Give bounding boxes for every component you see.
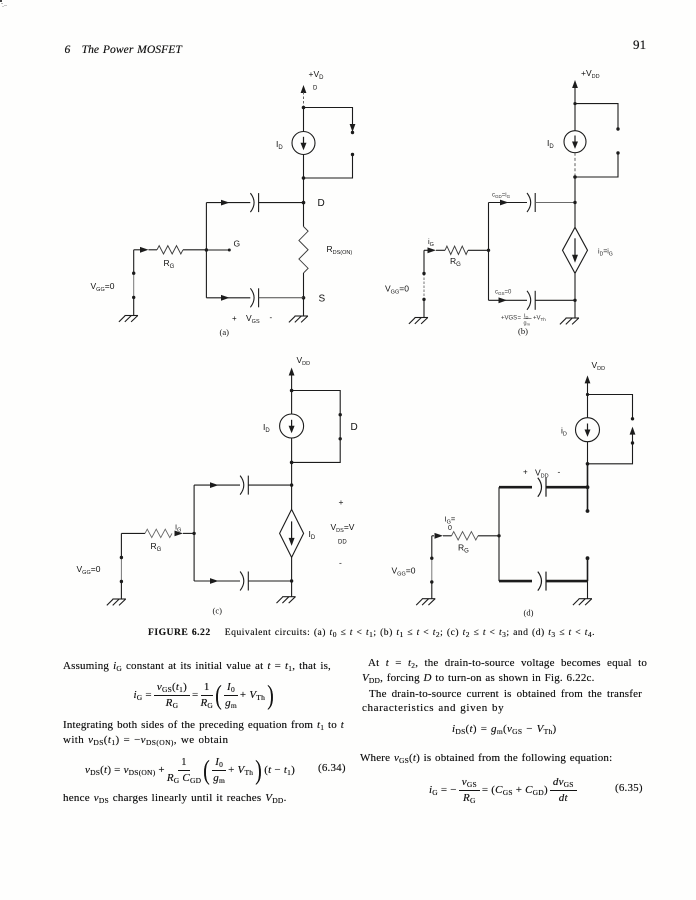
label VDS=V (c) [331,522,355,534]
label +VD supply (a) [309,69,325,81]
wire current source to bottom node (b) [574,153,576,177]
node top (c) [290,389,294,393]
label VDD supply (d) [592,360,606,372]
label iG=0 (d) [445,515,456,533]
current arrow into CGD (a) [221,200,230,206]
svg-text:ID: ID [263,422,270,434]
ground VGG (c) [107,599,126,605]
svg-text:D: D [318,198,325,209]
capacitor CGD (a) [250,193,258,212]
label VGG=0 (b) [385,284,409,296]
resistor RDS(ON) (a) [299,227,308,273]
ground under S (a) [289,316,308,322]
label minus VDS (c) [339,558,342,568]
resistor RG (c) [145,529,172,537]
supply arrow up (c) [289,368,295,391]
label S (a) [319,294,326,305]
label VGG=0 (a) [91,281,115,293]
wire dependent source to source node (c) [291,557,293,581]
svg-text:G: G [234,239,241,249]
svg-text:cGS=0: cGS=0 [495,290,512,297]
svg-text:VGG=0: VGG=0 [385,284,409,296]
node bottom of loop (c) [290,461,294,465]
switch contact lower (b) [575,151,620,177]
thick wire gate to capacitor CGS (d) [499,580,532,583]
supply arrow up (a) [301,85,307,108]
label iD (d) [561,426,567,438]
svg-text:ID: ID [276,139,283,151]
wire VGG to RG (a) [134,249,140,251]
supply arrow up (b) [572,80,578,104]
wire current source to bottom node (d) [587,442,589,464]
svg-text:+: + [339,497,344,507]
equation 6.35 [428,776,578,804]
svg-text:ID: ID [309,529,316,541]
figure caption [148,627,595,638]
equation iDS(t) [452,723,557,735]
capacitor CGS (b) [527,291,535,310]
wire RDS to S (a) [303,273,305,298]
wire dependent source to source node (b) [574,274,576,301]
wire loop to CGD node (c) [291,462,293,485]
label plus VDS (c) [339,497,344,507]
gate junction (d) [497,534,500,537]
open switch arrow down (a) [350,124,356,134]
wire top-right branch (a) [304,108,353,125]
wire CGS to source node (c) [248,580,291,582]
dependent source diamond (b) [563,227,588,273]
current source ID (a) [292,132,315,155]
wire top-right branch (c) [292,391,341,415]
svg-text:iD: iD [561,426,567,438]
wire gate to capacitor CGS (c) [194,580,240,582]
supply arrow up (d) [585,375,591,394]
svg-text:cGD=iG: cGD=iG [492,193,511,200]
thick wire CGD to drain node (d) [546,486,588,489]
diode contact upper (d) [631,417,634,420]
gate terminal stub G (a) [206,249,230,252]
svg-text:S: S [319,294,326,305]
node D (a) [302,201,306,205]
label (a) [220,327,230,337]
svg-text:-: - [270,313,273,322]
wire loop to drain node thick (d) [587,464,589,487]
node CGS-source (b) [573,299,576,302]
wire top-right branch (b) [575,104,618,129]
ground VGG (b) [409,318,428,324]
wire gate to capacitor CGD (a) [206,202,250,204]
ground right (d) [573,599,592,605]
wire VGG to RG (b) [424,249,428,251]
label (b) [518,326,528,336]
running head chapter title [65,43,182,56]
svg-text:RG: RG [164,258,175,270]
junction dots VGG wire (c) [120,556,123,583]
capacitor CGS (c) [240,572,248,591]
label IG (c) [175,523,181,534]
resistor RG (d) [452,532,500,540]
label cgs tiny (b) [495,290,512,297]
page number 91 [633,37,646,53]
svg-text:+: + [523,468,528,477]
label RG (b) [450,256,461,268]
node CGS-source (c) [290,579,293,582]
gate vertical wire (c) [193,485,195,581]
current arrow into CGS (c) [210,578,219,584]
wire source node to ground (c) [291,581,293,597]
svg-text:RG: RG [151,541,162,553]
svg-text:IG=: IG= [445,515,456,526]
svg-text:(b): (b) [518,326,528,336]
current arrow IG (c) [175,531,195,537]
capacitor CGD (c) [240,476,248,495]
label VDD supply (c) [297,355,311,367]
current arrow into CGS (a) [221,295,230,301]
label ID (a) [276,139,283,151]
label (d) [524,608,534,618]
wire CGS to source node (b) [535,299,575,301]
label ID (b) [547,138,554,150]
label D subscript second line (a) [313,86,318,92]
current arrow iG (d) [435,533,452,539]
VGG vertical wire (b) [423,250,425,317]
node top (d) [586,393,589,396]
VGG vertical wire (d) [431,536,433,599]
capacitor CGD (d) [538,478,546,497]
VGG source vertical wire (a) [133,250,135,316]
label D (c) [351,422,358,433]
equation iG = vGS(t1)/RG [133,681,276,709]
wire gate to capacitor CGS (a) [206,297,250,299]
svg-text:VGG=0: VGG=0 [77,564,101,576]
current arrow toward RG (a) [140,247,157,253]
gate node junction (a) [205,248,208,251]
svg-text:-: - [339,558,342,568]
left column text [63,660,331,672]
svg-text:(c): (c) [213,606,223,616]
wire CGD to drain (a) [259,202,304,204]
thick wire gate to capacitor CGD (d) [499,486,532,489]
wire top-right branch (d) [588,395,633,419]
label RG (c) [151,541,162,553]
wire drain node to dependent source (c) [291,485,293,509]
wire gate to capacitor CGD (b) [489,202,528,204]
svg-text:+VTh: +VTh [533,316,546,322]
label (c) [213,606,223,616]
label iD=iG (b) [598,249,613,258]
wire loop node to drain D (a) [303,178,305,203]
wire supply node to current source (a) [303,108,305,132]
svg-text:D: D [351,422,358,433]
wire CGD to drain node (b) [535,202,575,204]
wire VGG to RG (d) [432,535,434,537]
thick wire CGS to source node (d) [546,580,588,583]
current source iD (d) [576,418,600,442]
capacitor CGD (b) [527,193,535,212]
capacitor CGS (a) [250,288,258,307]
label ID (c) [263,422,270,434]
label DD wrap (c) [338,540,347,546]
current arrow into CGS (b) [499,297,508,303]
wire node to current source (c) [291,391,293,415]
svg-text:+VGS: +VGS [501,316,517,322]
ground right (c) [277,597,296,603]
right column text [368,657,647,669]
label RG (a) [164,258,175,270]
current arrow iG (b) [428,247,446,253]
ground VGG (d) [416,599,435,605]
svg-text:iG: iG [428,237,434,248]
label +VDD supply (b) [581,68,600,80]
node bottom of loop (d) [586,462,590,466]
node top (b) [573,102,576,105]
svg-text:0: 0 [448,525,452,532]
drain stub below node (d) [586,487,590,513]
gate junction (c) [192,532,195,535]
wire node to current source (b) [574,104,576,131]
wire D to RDS (a) [303,203,305,227]
svg-text:-: - [558,467,561,477]
svg-text:ID: ID [547,138,554,150]
node CGD-drain (b) [573,201,576,204]
svg-text:VDD: VDD [592,360,606,372]
scan speck top-left corner [0,0,2,2]
node top (a) [302,106,306,110]
svg-text:RDS(ON): RDS(ON) [327,244,353,256]
svg-text:+: + [232,314,237,323]
svg-text:iD=iG: iD=iG [598,249,613,258]
svg-text:(a): (a) [220,327,230,337]
label ID beside diamond (c) [309,529,316,541]
label cgd tiny (b) [492,193,511,200]
wire gate to capacitor CGS (b) [489,299,528,301]
svg-text:VGG=0: VGG=0 [392,566,416,578]
current source ID (b) [564,131,586,153]
junction dots VGG wire (d) [430,557,433,584]
diode current arrow up (d) [630,427,636,443]
gate junction (b) [487,249,490,252]
wire VGG to RG (c) [121,532,145,534]
VGG vertical wire (c) [120,533,122,599]
node CGD-drain junction (d) [586,485,590,489]
resistor RG (b) [445,246,489,254]
svg-text:VGG=0: VGG=0 [91,281,115,293]
svg-text:RG: RG [458,543,469,555]
svg-text:+VDD: +VDD [581,68,600,80]
label RG (d) [458,543,469,555]
label G (a) [234,239,241,249]
label VGG=0 (d) [392,566,416,578]
dependent source diamond ID (c) [280,509,304,557]
svg-text:+VD: +VD [309,69,325,81]
node bottom of loop (b) [573,175,577,179]
current arrow into CGD (b) [500,200,509,206]
equation 6.34 [84,756,296,784]
wire CGS to source (a) [259,297,304,299]
label +VGS- (a) [232,313,273,325]
wire current source to bottom node (c) [291,438,293,462]
gate vertical wire (d) [498,487,500,581]
wire gate to capacitor CGD (c) [194,484,240,486]
gate vertical wire (b) [488,203,490,301]
label iG (b) [428,237,434,248]
wire node to current source (d) [587,395,589,418]
wire source node to ground (b) [574,300,576,318]
svg-text:VGS: VGS [246,313,260,325]
node CGD-drain (c) [290,483,293,486]
switch contact upper (b) [616,127,619,130]
label +VGS=ID/gm+VTh (b) [501,314,546,327]
wire S to ground (a) [303,298,305,316]
svg-text:VDS=V: VDS=V [331,522,355,534]
svg-text:(d): (d) [524,608,534,618]
wire loop to CGD node (b) [574,177,576,203]
label + VDD - over capacitor (d) [523,467,561,480]
ground right (b) [560,318,579,324]
wire CGD to drain node (c) [248,484,291,486]
svg-text:=: = [518,316,522,322]
wire between contacts (c) [339,415,341,439]
gate vertical wire (a) [205,203,207,298]
label RDS(ON) (a) [327,244,353,256]
ground VGG (a) [119,316,138,322]
svg-text:DD: DD [338,540,347,546]
junction dots VGG wire (b) [422,272,425,301]
svg-text:RG: RG [450,256,461,268]
current arrow into CGD (c) [210,482,219,488]
label VGG=0 (c) [77,564,101,576]
node S (a) [302,296,306,300]
label D (a) [318,198,325,209]
node bottom of loop (a) [302,176,306,180]
diode D contact lower (c) [292,437,342,462]
wire source to ground (d) [587,581,589,599]
svg-text:VDD: VDD [297,355,311,367]
diode D contact upper (c) [339,413,342,416]
wire drain node to dependent source (b) [574,203,576,228]
diode contact lower (d) [588,441,635,464]
junction dots on VGG wire (a) [132,272,135,300]
svg-text:D: D [313,86,318,92]
open switch lower contact (a) [304,153,355,178]
wire current source to bottom node (a) [303,155,305,179]
resistor RG (a) [157,246,206,254]
source stub above CGS branch (d) [586,556,590,581]
capacitor CGS (d) [538,572,546,591]
current source ID (c) [280,414,304,438]
